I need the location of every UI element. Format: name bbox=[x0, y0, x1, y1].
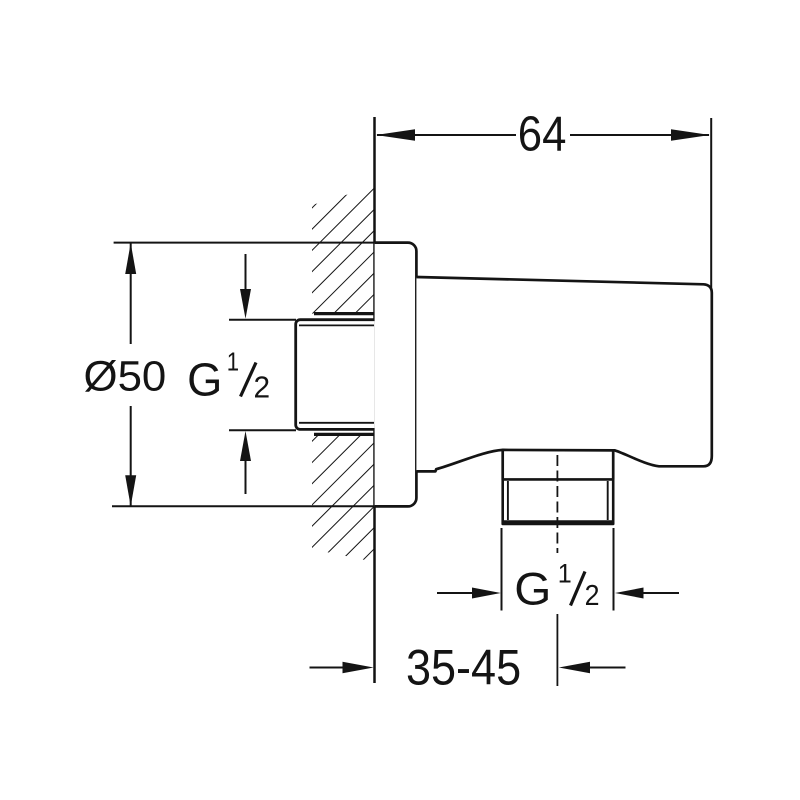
svg-text:G: G bbox=[514, 563, 551, 614]
svg-text:Ø50: Ø50 bbox=[84, 353, 167, 401]
svg-text:2: 2 bbox=[585, 580, 600, 612]
svg-text:1: 1 bbox=[227, 349, 239, 377]
svg-text:35-45: 35-45 bbox=[406, 639, 521, 696]
svg-text:G: G bbox=[187, 354, 222, 406]
svg-text:1: 1 bbox=[558, 558, 572, 588]
svg-text:2: 2 bbox=[254, 370, 271, 405]
svg-text:64: 64 bbox=[518, 107, 567, 161]
